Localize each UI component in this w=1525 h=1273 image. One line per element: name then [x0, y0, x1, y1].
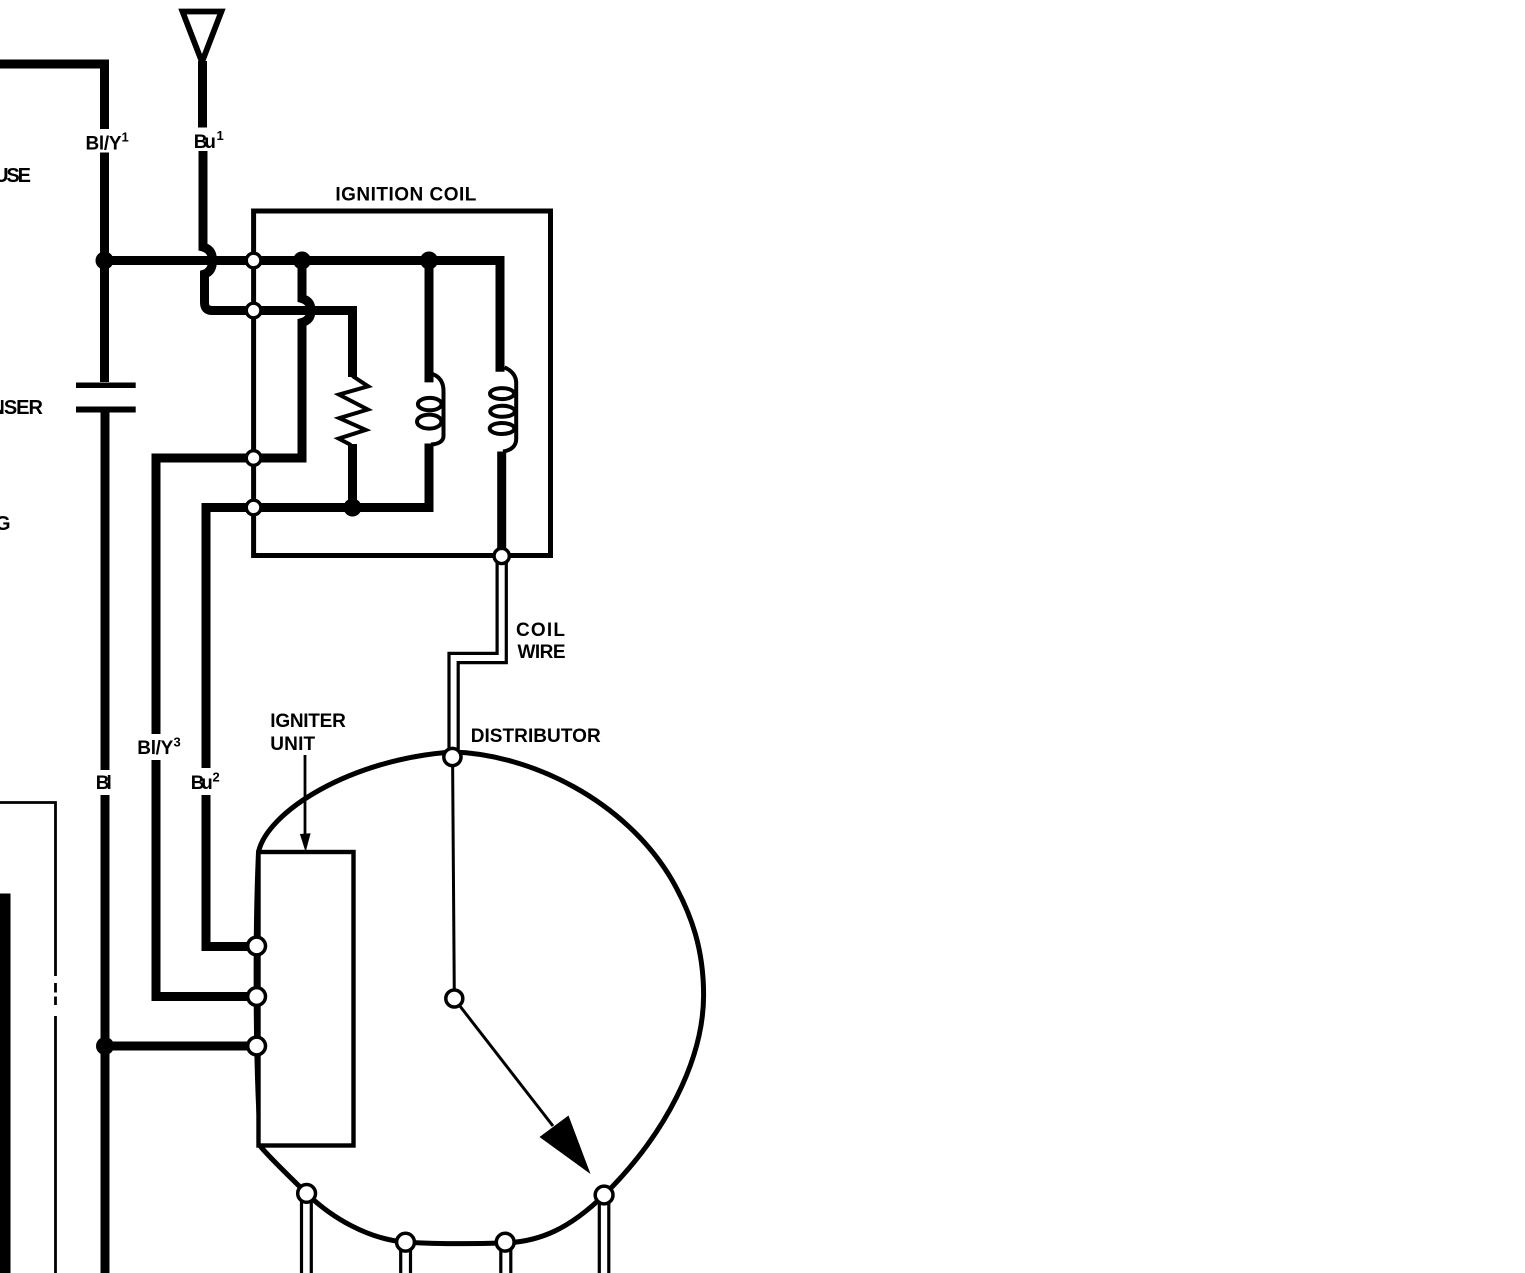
wire: secondary coil bottom lead to coil box output [497, 452, 506, 557]
svg-text:G: G [0, 513, 11, 535]
wire: resistor bottom lead to junction [348, 444, 357, 508]
distributor bottom terminal 1 [298, 1185, 316, 1203]
wire: Bu1 below label, hop over main wire, to coil terminal 2 [203, 151, 254, 311]
svg-text:Bl/Y: Bl/Y [86, 133, 122, 154]
wire: primary coil top lead [425, 261, 434, 383]
igniter terminal 2 [248, 988, 266, 1006]
svg-text:1: 1 [217, 128, 224, 143]
svg-text:Bu: Bu [191, 773, 213, 794]
coil box output terminal [494, 548, 509, 563]
condenser capacitor plates [76, 383, 136, 389]
svg-text:FUSE: FUSE [0, 165, 31, 187]
wire: horizontal main wire to coil terminal 1 [105, 256, 254, 265]
wire: bottom wire from coil terminal 4 to primary coil bottom [254, 444, 429, 508]
igniter terminal 1 [248, 937, 266, 955]
svg-text:IGNITER: IGNITER [270, 711, 346, 732]
coil terminal 3 [246, 451, 261, 466]
svg-text:Bl: Bl [96, 773, 112, 794]
wire: Bl/Y1 below label down to condenser [100, 153, 109, 383]
igniter terminal 3 [248, 1037, 266, 1055]
distributor bottom terminal 4 [595, 1186, 613, 1204]
inductor: primary winding loops [431, 374, 444, 445]
junction dot resistor to bottom wire [344, 499, 362, 517]
junction dot at Bl/Y1 branch [96, 252, 114, 270]
svg-text:IGNITION COIL: IGNITION COIL [335, 185, 476, 206]
svg-text:WIRE: WIRE [518, 642, 566, 663]
wire: Bl below condenser down left side [101, 413, 110, 771]
inductor: secondary winding loops [503, 368, 516, 452]
wire: top wire inside coil box to secondary coil lead [254, 261, 500, 372]
distributor bottom terminal 3 [496, 1233, 514, 1251]
coil wire (double line) from coil box to distributor [449, 560, 497, 750]
svg-text:Bu: Bu [194, 132, 216, 153]
wire: coil terminal 2 to resistor top [254, 311, 353, 378]
wire: Bu1 from triangle down [198, 61, 207, 128]
igniter unit box [259, 852, 354, 1146]
junction dot on top wire at branch [293, 252, 311, 270]
rotor shaft line from cap terminal to center [453, 762, 455, 995]
distributor center terminal [446, 990, 463, 1007]
leader arrow from IGNITER UNIT label [304, 755, 307, 838]
wire: Bl branch to igniter [105, 1042, 257, 1051]
wire: Bu2 from coil terminal 4 to igniter [206, 508, 254, 769]
svg-text:3: 3 [174, 735, 181, 750]
svg-text:UNIT: UNIT [270, 734, 315, 755]
svg-text:Bl/Y: Bl/Y [137, 738, 173, 759]
svg-text:2: 2 [213, 770, 220, 785]
wire: branch down from dot, hop, to coil terminal 3 [254, 261, 311, 459]
svg-text:COIL: COIL [516, 620, 565, 641]
svg-text:CONDENSER: CONDENSER [0, 397, 44, 419]
coil terminal 1 [246, 253, 261, 268]
distributor bottom terminal 2 [397, 1233, 415, 1251]
triangle connector (Bu1 top) [183, 12, 222, 63]
ignition coil box [254, 211, 551, 556]
thick wire corner at lower left [0, 899, 5, 1273]
coil terminal 2 [246, 303, 261, 318]
distributor top terminal [444, 748, 461, 765]
spark plug wire 4 (double line) [599, 1196, 609, 1273]
svg-text:DISTRIBUTOR: DISTRIBUTOR [471, 726, 601, 747]
junction dot Bl branch [96, 1037, 114, 1055]
rotor arrowhead [540, 1116, 591, 1175]
rotor arm line [456, 1001, 553, 1126]
spark plug wire 2 (double line) [401, 1245, 411, 1273]
svg-text:1: 1 [122, 130, 129, 145]
component box edge at lower left (thin) [0, 803, 56, 1273]
wire: main feed from left edge to Bl/Y1 [0, 64, 105, 129]
coil terminal 4 [246, 500, 261, 515]
spark plug wire 3 (double line) [501, 1245, 511, 1273]
junction dot on top wire at primary lead [420, 252, 438, 270]
spark plug wire 1 (double line) [302, 1196, 312, 1273]
resistor R (ballast) zigzag [339, 376, 369, 445]
distributor cap outline [256, 752, 703, 1244]
wire: Bl/Y3 from coil terminal 3 to igniter [156, 458, 254, 734]
